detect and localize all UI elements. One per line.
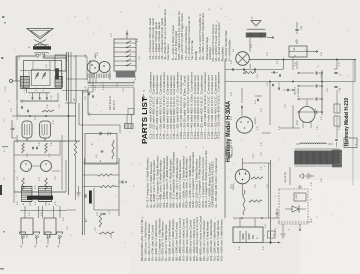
- svg-text:+5: +5: [340, 74, 342, 76]
- svg-text:Harmony Model H-210: Harmony Model H-210: [344, 98, 350, 146]
- svg-text:12SQ7: 12SQ7: [255, 116, 257, 124]
- svg-text:60 CY.: 60 CY.: [112, 100, 116, 110]
- svg-text:φ28: φ28: [294, 39, 298, 44]
- svg-text:47Ω: 47Ω: [296, 194, 298, 198]
- svg-text:47: 47: [35, 245, 37, 247]
- svg-text:C21—.02 mfd 400 V.D.C. Condens: C21—.02 mfd 400 V.D.C. Condenser: [217, 72, 221, 139]
- svg-text:5W4: 5W4: [348, 141, 350, 146]
- svg-text:Four Screws: Four Screws: [166, 43, 170, 60]
- svg-text:4x: 4x: [100, 160, 102, 162]
- svg-text:+5: +5: [340, 88, 342, 90]
- svg-text:OUTPUT: OUTPUT: [295, 86, 297, 95]
- svg-text:50L6: 50L6: [250, 63, 252, 69]
- svg-text:ON-OFF SW.: ON-OFF SW.: [285, 171, 287, 183]
- svg-text:35Z5: 35Z5: [297, 119, 299, 125]
- svg-text:6x: 6x: [4, 150, 6, 152]
- svg-text:35W4: 35W4: [233, 184, 235, 190]
- svg-text:C 20A: C 20A: [4, 86, 7, 92]
- svg-text:Sec. 8 Ohm Tap: Sec. 8 Ohm Tap: [190, 40, 194, 60]
- svg-text:PARTS LIST: PARTS LIST: [140, 96, 149, 144]
- svg-text:41: 41: [209, 8, 211, 10]
- svg-text:47: 47: [46, 245, 48, 247]
- svg-text:117 V.A.C.: 117 V.A.C.: [108, 95, 112, 110]
- svg-text:H—.05 mfd 400 V.D.C. Condenser: H—.05 mfd 400 V.D.C. Condenser: [214, 157, 218, 207]
- svg-text:47: 47: [21, 245, 23, 247]
- svg-text:47: 47: [58, 245, 60, 247]
- svg-text:90V: 90V: [252, 234, 255, 239]
- svg-text:4Ω SPKR: 4Ω SPKR: [298, 88, 300, 97]
- svg-text:R15—2200 ohm ½ Watt Resistor: R15—2200 ohm ½ Watt Resistor: [219, 219, 223, 261]
